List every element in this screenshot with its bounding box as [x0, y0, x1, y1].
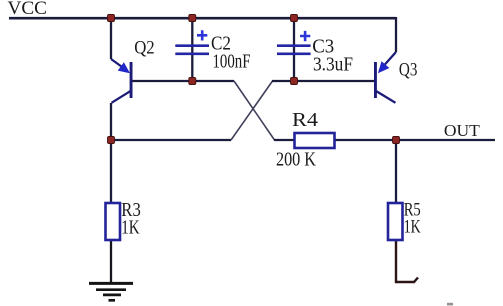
wire C3 top lead [293, 17, 295, 81]
capacitor C3 [277, 31, 311, 54]
junction dot VCC/C2 [189, 15, 196, 22]
wire OUT lead [396, 139, 495, 141]
wire Q2 emitter drop [110, 17, 112, 59]
wire R4 left lead [274, 139, 294, 141]
junction dot VCC/C3 [291, 15, 298, 22]
junction dot Q3 collector / OUT node [393, 137, 400, 144]
junction dot C2 bottom / Q2 base [189, 78, 196, 85]
wire R5 top lead [395, 140, 397, 202]
svg-text:Q3: Q3 [399, 60, 418, 81]
wire R4 right lead to Q3 collector node [335, 139, 396, 141]
wire cross diagonal B (lower row to Q3 base) [231, 81, 273, 140]
junction dot Q2 collector node [108, 137, 115, 144]
svg-text:1K: 1K [121, 218, 139, 239]
stray mark bottom right [447, 303, 453, 306]
wire cross diagonal A (Q2 base to R4 row) [234, 81, 275, 140]
svg-text:Q2: Q2 [134, 38, 155, 59]
wire lower left row (Q2 collector node to cross) [111, 139, 231, 141]
resistor R4 [295, 133, 335, 148]
wire R5 bottom lead with hook [396, 241, 418, 282]
svg-text:3.3uF: 3.3uF [313, 55, 353, 76]
svg-text:VCC: VCC [8, 0, 48, 19]
wire R3 bottom lead [110, 241, 112, 283]
svg-text:1K: 1K [404, 217, 421, 238]
wire Q2 collector drop [110, 103, 112, 140]
wire Q3 base row [272, 80, 374, 82]
capacitor C2 [175, 30, 209, 54]
wire VCC rail [9, 17, 396, 20]
ground symbol [89, 283, 133, 300]
resistor R5 [388, 203, 403, 240]
junction dot VCC/Q2 emitter [108, 15, 115, 22]
junction dot C3 bottom / Q3 base [291, 78, 298, 85]
transistor Q2 [111, 59, 133, 103]
svg-text:200 K: 200 K [276, 150, 316, 171]
svg-text:100nF: 100nF [213, 52, 251, 73]
transistor Q3 [374, 52, 396, 103]
svg-text:OUT: OUT [444, 121, 481, 140]
wire R3 top lead [110, 140, 112, 202]
wire Q2 base to cross [131, 80, 234, 82]
wire C2 top lead [191, 17, 193, 81]
wire Q3 emitter drop [395, 17, 397, 52]
resistor R3 [106, 203, 121, 240]
svg-text:R4: R4 [292, 109, 318, 131]
